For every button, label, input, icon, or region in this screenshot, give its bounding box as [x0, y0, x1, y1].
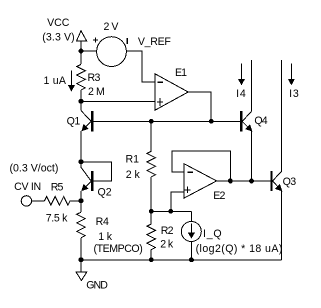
- svg-text:2 M: 2 M: [88, 86, 104, 98]
- svg-text:Q2: Q2: [98, 187, 112, 199]
- svg-text:GND: GND: [86, 280, 108, 292]
- svg-text:V_REF: V_REF: [138, 36, 171, 48]
- svg-text:Q4: Q4: [254, 115, 267, 127]
- svg-text:CV IN: CV IN: [14, 181, 41, 193]
- svg-text:2 V: 2 V: [104, 21, 120, 33]
- svg-text:I4: I4: [236, 88, 246, 100]
- svg-text:1 uA: 1 uA: [44, 75, 67, 87]
- svg-text:R3: R3: [88, 72, 101, 84]
- svg-text:I3: I3: [289, 88, 299, 100]
- svg-text:(3.3 V): (3.3 V): [42, 31, 75, 43]
- svg-text:2 k: 2 k: [126, 169, 141, 181]
- svg-text:(0.3 V/oct): (0.3 V/oct): [10, 162, 59, 174]
- svg-text:1 k: 1 k: [98, 231, 113, 243]
- svg-text:R1: R1: [126, 154, 140, 166]
- svg-text:(log2(Q) * 18 uA): (log2(Q) * 18 uA): [196, 243, 283, 255]
- svg-text:7.5 k: 7.5 k: [46, 213, 68, 225]
- svg-text:R4: R4: [96, 216, 109, 228]
- svg-text:Q3: Q3: [283, 176, 297, 188]
- svg-text:2 k: 2 k: [160, 239, 174, 251]
- svg-text:E2: E2: [213, 190, 225, 202]
- svg-text:E1: E1: [175, 67, 187, 79]
- svg-text:R5: R5: [51, 182, 64, 194]
- svg-text:(TEMPCO): (TEMPCO): [94, 243, 143, 255]
- svg-text:I_Q: I_Q: [203, 228, 222, 240]
- svg-text:VCC: VCC: [47, 17, 70, 29]
- svg-text:R2: R2: [161, 225, 174, 237]
- svg-text:Q1: Q1: [67, 115, 81, 127]
